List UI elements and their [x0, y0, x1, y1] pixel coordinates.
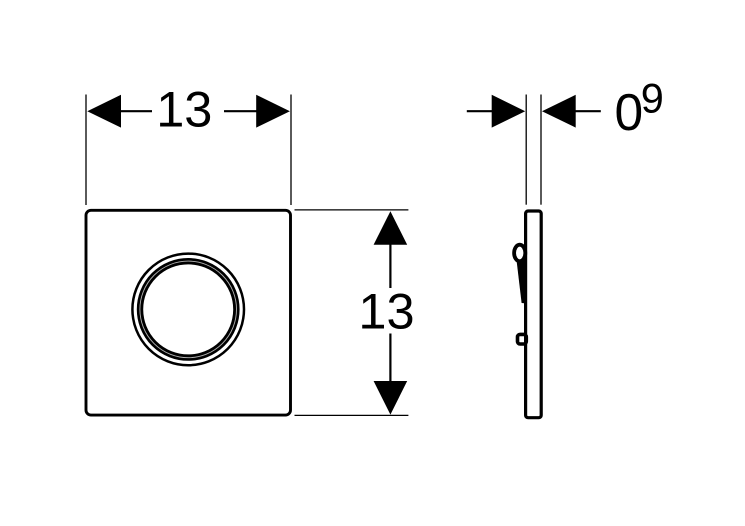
width dimension line right segment [224, 110, 257, 112]
svg-text:0: 0 [615, 83, 644, 141]
button outer circle [132, 254, 244, 366]
button ring split line [140, 261, 237, 358]
front view plate outline [86, 210, 291, 415]
height dimension line lower segment [389, 334, 391, 383]
height extension line bottom [295, 414, 409, 416]
width dimension arrow left [87, 95, 121, 128]
thickness dimension line left segment [467, 110, 493, 112]
svg-text:13: 13 [358, 283, 414, 340]
side view lower clip [518, 334, 527, 344]
thickness dimension arrow right [542, 95, 576, 128]
height dimension arrow bottom [374, 381, 408, 415]
button ring band [140, 261, 236, 357]
thickness dimension arrow left [492, 95, 526, 128]
svg-text:9: 9 [641, 75, 664, 122]
thickness dimension line right segment [575, 110, 601, 112]
side view spring clip loop [514, 245, 525, 262]
svg-text:13: 13 [156, 81, 212, 138]
side view spring clip arm [517, 260, 527, 304]
side view plate outline [526, 211, 542, 418]
height extension line top [295, 209, 409, 211]
width extension line right [290, 95, 292, 206]
thickness extension line right [540, 95, 542, 205]
width dimension line left segment [120, 110, 152, 112]
height dimension arrow top [374, 211, 408, 245]
thickness extension line left [525, 95, 527, 205]
width extension line left [85, 95, 87, 206]
height dimension line upper segment [389, 244, 391, 288]
width dimension arrow right [256, 95, 290, 128]
